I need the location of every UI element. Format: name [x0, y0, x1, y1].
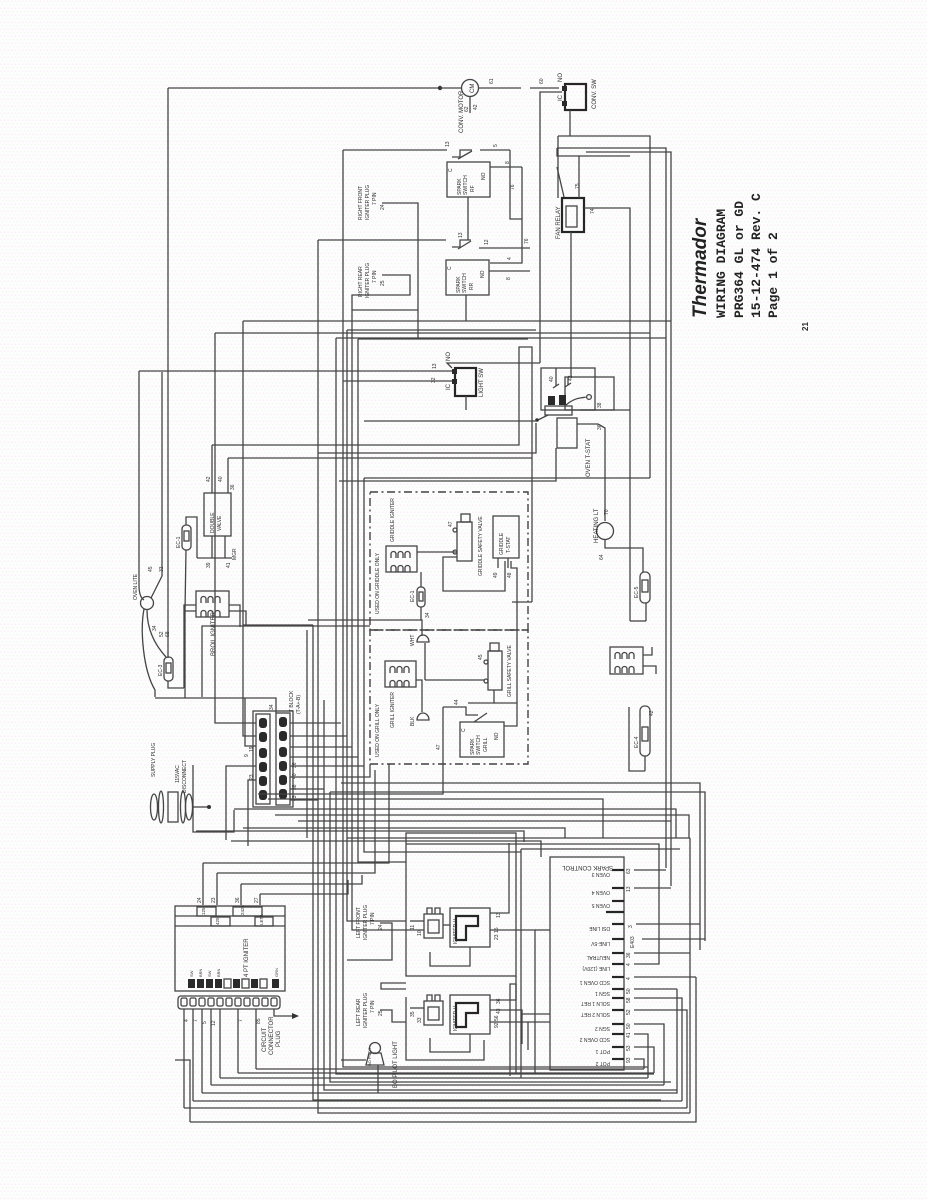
svg-text:115VAC: 115VAC — [175, 765, 181, 783]
svg-text:BLK: BLK — [410, 716, 416, 726]
wire relay1 left — [410, 920, 424, 922]
pin scd oven 2 — [579, 1032, 632, 1042]
svg-text:24: 24 — [197, 897, 203, 903]
wire module2 right b — [490, 1010, 522, 1044]
svg-text:IGNITER U: IGNITER U — [453, 918, 459, 944]
wire heating lt — [598, 424, 610, 521]
wire t-stat curl — [566, 395, 591, 405]
svg-text:SUPPLY PLUG: SUPPLY PLUG — [151, 743, 157, 777]
svg-text:LINE (120V): LINE (120V) — [582, 965, 610, 971]
svg-text:PLUG: PLUG — [276, 1030, 282, 1047]
svg-text:SWITCH: SWITCH — [462, 273, 468, 293]
box sc outer1 — [520, 849, 522, 1078]
svg-text:IC: IC — [446, 383, 452, 390]
svg-text:EC-3: EC-3 — [158, 664, 164, 676]
wire t-stat pin stubs — [549, 368, 574, 388]
wire band 815 — [275, 815, 689, 838]
wire trunk v8 — [352, 322, 406, 930]
ec-4 connector — [634, 706, 655, 771]
wire light sw bottom — [465, 396, 467, 410]
wire trunk v4 — [330, 792, 671, 1082]
svg-text:OVEN LITE: OVEN LITE — [133, 573, 139, 600]
pin oven 3 — [591, 868, 632, 877]
svg-text:IGNITER PLUG: IGNITER PLUG — [365, 263, 371, 298]
svg-text:CONV. SW: CONV. SW — [592, 79, 598, 109]
svg-text:IGNITER PLUG: IGNITER PLUG — [365, 185, 371, 220]
wire tblock left fan — [215, 321, 256, 846]
wire sc oven4 up — [634, 887, 671, 889]
griddle safety valve — [448, 514, 484, 576]
oven lite L1 — [133, 566, 171, 637]
box outer assembly — [347, 837, 690, 839]
svg-text:74: 74 — [590, 208, 596, 214]
terminal block outer — [253, 711, 293, 807]
svg-text:53: 53 — [626, 1045, 632, 1051]
wire rr no — [489, 271, 530, 280]
pin neutral — [586, 952, 632, 960]
wire relay1 left2 — [406, 929, 424, 931]
t block label — [289, 690, 302, 714]
wire sc scd2 — [634, 1034, 648, 1078]
wire module1 top — [490, 843, 509, 913]
svg-text:BO PILOT LIGHT: BO PILOT LIGHT — [393, 1041, 399, 1088]
wire t-stat loop A — [541, 368, 595, 410]
svg-text:Page 1 of 2: Page 1 of 2 — [766, 232, 781, 318]
svg-text:5: 5 — [202, 1021, 208, 1024]
wire dv bottom stubs — [197, 536, 232, 558]
wire motor to switch — [479, 78, 559, 88]
svg-text:7 PIN: 7 PIN — [372, 192, 378, 205]
wire griddle tstat loop — [443, 557, 505, 591]
svg-text:WIRING DIAGRAM: WIRING DIAGRAM — [714, 209, 729, 318]
wire relay2 left — [410, 1007, 424, 1009]
wire center mesh d — [339, 448, 556, 481]
svg-text:33: 33 — [417, 1017, 423, 1023]
wire rf 5 drop — [510, 150, 522, 219]
svg-text:OVEN 3: OVEN 3 — [591, 871, 610, 877]
svg-text:40: 40 — [218, 476, 224, 482]
double valve V1 — [204, 476, 238, 568]
svg-text:34: 34 — [152, 625, 158, 631]
svg-text:21: 21 — [801, 322, 810, 331]
wire broil igniter left — [184, 605, 196, 688]
wire pilot left — [341, 1059, 366, 1061]
svg-text:DSI LINE: DSI LINE — [588, 925, 610, 931]
pin scd oven 1 — [579, 977, 632, 985]
wire spark grill no loop — [494, 703, 517, 726]
svg-text:9: 9 — [244, 754, 250, 757]
svg-text:68: 68 — [165, 631, 171, 637]
wire trunk v7 — [347, 330, 406, 921]
wire griddle igniter to valve — [417, 551, 457, 553]
wire band 841 — [231, 841, 541, 857]
svg-text:SWITCH: SWITCH — [463, 175, 469, 195]
svg-text:7: 7 — [238, 1019, 244, 1022]
svg-text:RF: RF — [470, 185, 476, 192]
svg-text:BO PILOT: BO PILOT — [367, 1047, 372, 1066]
wire mesh top c — [336, 337, 666, 339]
svg-text:PRG364 GL or GD: PRG364 GL or GD — [732, 201, 747, 318]
wire grill wht — [425, 679, 485, 681]
svg-text:SW: SW — [189, 970, 194, 977]
svg-text:LEFT FRONT: LEFT FRONT — [356, 907, 362, 938]
svg-text:RIGHT FRONT: RIGHT FRONT — [358, 186, 364, 220]
svg-text:VALVE: VALVE — [217, 515, 223, 531]
wire t-stat pins right — [577, 402, 630, 430]
svg-text:C: C — [447, 266, 453, 270]
svg-text:34: 34 — [269, 704, 275, 710]
wire light sw 40 — [447, 363, 540, 368]
svg-text:EC-5: EC-5 — [634, 586, 640, 598]
dashed box used on grill only — [370, 630, 528, 764]
wire center mesh a — [318, 423, 536, 453]
wire ec1g down — [421, 607, 431, 620]
ec-5 connector — [634, 572, 650, 621]
svg-text:IGNITER PLUG: IGNITER PLUG — [363, 905, 369, 940]
wire fan relay top — [557, 148, 630, 198]
svg-text:OVEN 5: OVEN 5 — [591, 902, 610, 908]
svg-text:SCD OVEN 2: SCD OVEN 2 — [579, 1036, 610, 1042]
svg-text:SPARK CONTROL: SPARK CONTROL — [561, 864, 613, 870]
circuit connector plug strip — [178, 996, 282, 1055]
wire trunk v10 — [364, 478, 521, 852]
svg-text:41: 41 — [626, 1032, 632, 1038]
pin oven 4 — [591, 886, 632, 895]
left front igniter plug label — [356, 905, 384, 940]
griddle t-stat — [493, 516, 519, 578]
wire module1 bot — [430, 947, 470, 966]
wire sc pot1 — [634, 1047, 654, 1073]
wire band 849 — [521, 848, 680, 850]
wire band 831 — [196, 831, 524, 842]
bake relay 1 — [410, 908, 443, 938]
svg-text:36: 36 — [626, 952, 632, 958]
svg-text:47: 47 — [436, 744, 442, 750]
svg-text:70: 70 — [604, 509, 610, 515]
svg-text:42: 42 — [649, 710, 655, 716]
svg-text:NO: NO — [481, 172, 487, 180]
wire rr bottom — [465, 295, 467, 321]
right front igniter plug label — [358, 185, 386, 220]
pin sgn 2 — [595, 1023, 632, 1031]
wire trunk v6 — [343, 150, 648, 1067]
svg-text:NO: NO — [558, 73, 564, 82]
svg-text:125: 125 — [201, 907, 206, 915]
wire rf bottom — [467, 197, 469, 240]
svg-text:POT 2: POT 2 — [595, 1060, 610, 1066]
svg-text:SCD OVEN 1: SCD OVEN 1 — [579, 979, 610, 985]
svg-text:11: 11 — [410, 925, 416, 930]
wire right rear plug — [352, 275, 410, 322]
svg-text:USED ON GRILL ONLY: USED ON GRILL ONLY — [375, 703, 381, 757]
frame box R1 — [558, 136, 650, 478]
fan relay K1 — [524, 183, 596, 244]
svg-text:36: 36 — [496, 998, 502, 1004]
svg-text:13: 13 — [432, 363, 438, 369]
svg-text:41: 41 — [226, 562, 232, 568]
wire fan relay bottom — [570, 232, 572, 377]
wire ec1 top — [186, 517, 197, 558]
pin dsi line — [588, 924, 634, 931]
wire mid h2 — [243, 624, 313, 626]
svg-text:23: 23 — [249, 774, 255, 780]
svg-text:50: 50 — [626, 988, 632, 994]
bo pilot light — [366, 1041, 399, 1088]
wire to tblock 34 — [155, 698, 276, 713]
svg-text:FAN RELAY: FAN RELAY — [556, 206, 562, 239]
svg-text:7 PIN: 7 PIN — [372, 270, 378, 283]
ec-1 griddle — [410, 587, 425, 607]
wire center mesh b — [212, 347, 532, 458]
wire to motor — [440, 87, 462, 89]
heating lt — [594, 508, 643, 572]
spark switch RR — [446, 260, 489, 295]
igniter pin squares — [188, 968, 279, 988]
wire tblock right fan — [290, 723, 370, 800]
wire module1 relay — [443, 924, 450, 926]
svg-text:GRIDDLE: GRIDDLE — [499, 532, 505, 555]
pin pot 2 — [595, 1057, 632, 1066]
pin line 120v — [582, 963, 632, 971]
supply plug P1 — [151, 743, 193, 823]
wire module2 right c — [490, 1022, 528, 1050]
svg-text:CIRCUIT: CIRCUIT — [262, 1027, 268, 1052]
wire 47 drop — [442, 707, 444, 740]
svg-text:DISCONNECT: DISCONNECT — [182, 760, 188, 793]
conv motor M1 — [459, 80, 479, 134]
svg-text:61: 61 — [489, 78, 495, 84]
spark switch grill — [436, 699, 504, 757]
svg-text:BRN: BRN — [216, 968, 221, 977]
bake relay 2 — [410, 995, 443, 1025]
svg-text:EC-4: EC-4 — [634, 736, 640, 748]
svg-text:13: 13 — [626, 886, 632, 892]
svg-text:POT 1: POT 1 — [595, 1048, 610, 1054]
left rear igniter plug label — [356, 993, 384, 1028]
pin soln 1 ret — [581, 997, 632, 1006]
svg-text:76: 76 — [510, 184, 516, 190]
svg-text:T-STAT: T-STAT — [506, 537, 512, 553]
svg-text:58: 58 — [626, 997, 632, 1003]
terminal block strip A — [256, 714, 270, 804]
wire fan relay right — [584, 208, 630, 621]
wire spark grill feed — [443, 707, 487, 722]
wire t-stat loop B — [565, 377, 614, 410]
wire bus 626 — [202, 626, 370, 697]
wire band 794 — [258, 740, 443, 794]
wire ec1 broil drop — [184, 611, 186, 688]
wire dv pin 40 up — [227, 458, 229, 493]
svg-text:85: 85 — [256, 1018, 262, 1024]
wire griddle ign down — [420, 572, 422, 587]
wire plug arrow — [274, 1009, 299, 1019]
wire left front plug — [347, 923, 392, 960]
wire mesh c drop — [531, 458, 533, 602]
wire light sw feed — [139, 363, 452, 383]
svg-text:48: 48 — [507, 572, 513, 578]
svg-text:7 PIN: 7 PIN — [370, 1000, 376, 1013]
svg-text:GRILL IGNITER: GRILL IGNITER — [390, 692, 396, 728]
svg-text:40: 40 — [549, 376, 555, 382]
wire grill valve bottom pin — [468, 690, 494, 703]
wire sc sgn1 — [634, 988, 677, 990]
svg-text:45: 45 — [478, 654, 484, 660]
svg-text:IC: IC — [558, 94, 564, 101]
svg-text:13: 13 — [445, 141, 451, 147]
svg-text:2425: 2425 — [240, 904, 245, 915]
svg-text:SWITCH: SWITCH — [476, 735, 482, 755]
frame box R3 — [586, 152, 671, 886]
svg-text:BRN: BRN — [198, 968, 203, 977]
wire band 783 — [341, 783, 700, 950]
wire left main vertical — [167, 88, 169, 658]
svg-text:39: 39 — [206, 562, 212, 568]
wire supply box — [193, 765, 234, 832]
wire grill igniter right — [416, 680, 422, 712]
svg-text:BROIL IGNITER: BROIL IGNITER — [211, 612, 217, 656]
wire band 792 — [330, 792, 705, 941]
svg-text:GRIDDLE SAFETY VALVE: GRIDDLE SAFETY VALVE — [478, 516, 484, 576]
svg-text:4: 4 — [626, 963, 632, 966]
wire oven lite top — [161, 372, 163, 576]
svg-text:NO: NO — [446, 352, 452, 361]
svg-text:24: 24 — [380, 204, 386, 210]
4 pt igniter module — [175, 904, 285, 991]
wire left rear plug — [380, 1010, 406, 1022]
ec-1 connector — [176, 525, 191, 550]
svg-text:63: 63 — [626, 868, 632, 874]
svg-text:40: 40 — [292, 773, 298, 779]
wht lead — [410, 635, 429, 680]
broil igniter connector — [196, 591, 229, 656]
wire mid h1 — [306, 630, 308, 838]
conv sw S1 — [558, 73, 598, 110]
wire trunk top v9 — [358, 338, 528, 340]
svg-text:76: 76 — [524, 238, 530, 244]
wire sc line120 — [406, 844, 659, 964]
svg-text:E403: E403 — [630, 936, 636, 948]
svg-text:NO: NO — [480, 270, 486, 278]
svg-text:IGNITER PLUG: IGNITER PLUG — [363, 993, 369, 1028]
svg-text:4: 4 — [507, 257, 513, 260]
svg-text:OVEN 4: OVEN 4 — [591, 889, 610, 895]
svg-text:64: 64 — [599, 554, 605, 560]
oven t-stat body — [557, 418, 592, 477]
wire module2 right a — [490, 984, 516, 1000]
svg-text:24: 24 — [378, 924, 384, 930]
svg-text:(T-A+-B): (T-A+-B) — [296, 695, 302, 714]
svg-text:RR: RR — [469, 282, 475, 290]
wire plug drops — [184, 1009, 262, 1108]
wire bus 620 — [308, 620, 422, 636]
svg-text:RIGHT REAR: RIGHT REAR — [358, 266, 364, 297]
pin sgn 1 — [595, 988, 632, 996]
wire top main — [168, 87, 440, 89]
wire supply to block — [193, 805, 211, 809]
svg-text:23: 23 — [211, 897, 217, 903]
wire boxA bottom feed — [381, 983, 406, 989]
wire right edge assembly — [689, 838, 691, 1113]
svg-text:LETA: LETA — [259, 914, 264, 925]
svg-text:42: 42 — [568, 375, 574, 381]
wire sc line5v — [642, 938, 705, 940]
svg-text:CM: CM — [470, 84, 476, 93]
svg-text:93: 93 — [626, 1057, 632, 1063]
pin pot 1 — [595, 1045, 632, 1054]
wire trunk v3 — [324, 700, 677, 1090]
svg-text:LEFT REAR: LEFT REAR — [356, 998, 362, 1026]
svg-text:GRILL SAFETY VALVE: GRILL SAFETY VALVE — [507, 645, 513, 697]
wire trunk v9 — [358, 339, 406, 862]
svg-text:MGR: MGR — [232, 548, 238, 560]
node junction — [438, 86, 442, 90]
wire band 809 — [234, 809, 676, 838]
svg-text:25: 25 — [378, 1010, 384, 1016]
wire oven lite feed — [139, 371, 144, 600]
svg-text:425: 425 — [215, 917, 220, 925]
svg-text:SOLN 2 RET: SOLN 2 RET — [581, 1011, 610, 1017]
wire ec3 join — [184, 688, 186, 698]
svg-text:GRILL: GRILL — [483, 737, 489, 752]
wire trunk top v7 — [347, 329, 536, 331]
svg-text:LIGHT SW: LIGHT SW — [479, 368, 485, 397]
svg-text:50: 50 — [626, 1023, 632, 1029]
svg-text:SOLN 1 RET: SOLN 1 RET — [581, 1000, 610, 1006]
wire pins to igniter — [197, 863, 362, 905]
wire boxA right ext — [515, 976, 517, 1073]
svg-text:75: 75 — [575, 183, 581, 189]
svg-text:42: 42 — [206, 476, 212, 482]
dashed box used on griddle only — [370, 492, 528, 630]
svg-text:C: C — [461, 728, 467, 732]
wire sc dsi — [636, 923, 700, 925]
wire rr feed — [318, 232, 530, 249]
igniter module 1 — [450, 908, 502, 947]
svg-text:15-12-474 Rev. C: 15-12-474 Rev. C — [749, 193, 764, 318]
svg-text:43: 43 — [496, 1008, 502, 1014]
grill igniter connector — [385, 661, 416, 728]
svg-text:32: 32 — [431, 377, 437, 383]
svg-text:WHT: WHT — [410, 635, 416, 646]
wire griddle tstat right — [511, 561, 517, 703]
pin soln 2 ret — [581, 1009, 632, 1017]
svg-text:C: C — [448, 168, 454, 172]
wire conv sw down — [540, 92, 562, 363]
pin blank — [606, 911, 624, 913]
wire band 821 — [298, 820, 671, 822]
griddle igniter connector — [386, 498, 417, 572]
wire rf feed — [343, 141, 510, 159]
svg-text:60: 60 — [539, 78, 545, 84]
svg-text:NO: NO — [494, 732, 500, 740]
wire conv sw to frame — [569, 110, 571, 136]
svg-text:36: 36 — [292, 762, 298, 768]
pin line-5v — [590, 936, 636, 948]
terminal block strip B — [276, 713, 290, 805]
wire oven lite left — [142, 609, 155, 697]
wire crossbar 310 — [352, 309, 418, 311]
wire pilot bottom — [377, 1065, 379, 1093]
wire module1 right — [490, 930, 535, 1073]
svg-text:4: 4 — [184, 1019, 190, 1022]
wire right front plug — [382, 203, 418, 338]
wire sc oven3 up — [634, 869, 666, 871]
oven t-stat contacts — [545, 395, 572, 415]
box lower outer — [406, 833, 516, 976]
wire bottom drop l — [175, 1060, 190, 1122]
light sw S2 — [446, 352, 485, 397]
wire ec5 bracket — [630, 620, 646, 622]
